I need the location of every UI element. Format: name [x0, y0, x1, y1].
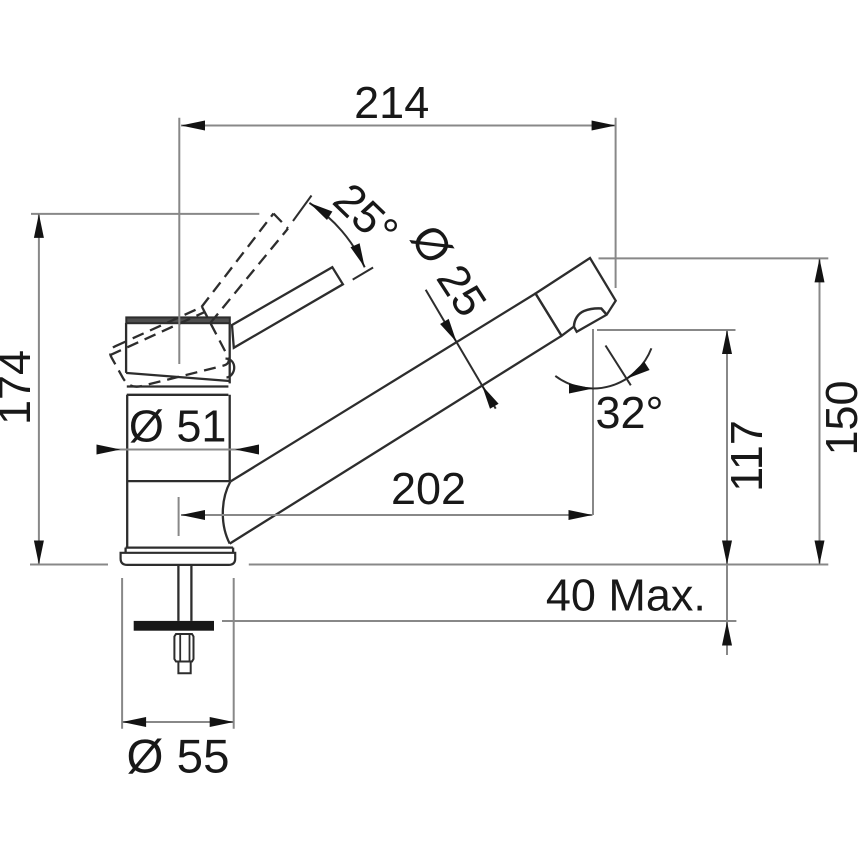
dashed handle lever edge 2 — [210, 229, 288, 323]
extension line flange right — [233, 578, 235, 729]
faucet collar upper line — [127, 385, 229, 387]
mounting nut — [174, 634, 193, 662]
dimension 202 right arrow — [569, 510, 593, 520]
spout head outline — [536, 258, 616, 336]
dimension 117 bottom arrow — [722, 541, 732, 565]
dimension 32 degree arc — [555, 348, 651, 388]
dimension 32 degree arrow right — [627, 362, 650, 379]
svg-text:150: 150 — [816, 380, 860, 455]
outlet axis line — [606, 346, 631, 386]
dimension diameter 51 line — [103, 449, 257, 451]
extension line spout tip (right of 214) — [615, 118, 617, 288]
dimension 214 right arrow — [592, 121, 616, 131]
extension line head top — [599, 257, 829, 259]
extension line centerline lower — [178, 497, 180, 536]
svg-text:202: 202 — [391, 463, 466, 514]
counter bottom line (40 max) — [222, 620, 736, 622]
extension line centerline (left of 214) — [178, 118, 180, 364]
faucet body bottom edge — [126, 373, 230, 381]
dashed handle lever tip — [274, 214, 289, 229]
dimension 174 top arrow — [34, 214, 44, 238]
dimension diameter 55 line — [122, 721, 234, 723]
svg-text:214: 214 — [354, 77, 429, 128]
dimension 117 line — [726, 330, 728, 565]
counter top line left segment — [30, 564, 108, 566]
extension line flange left — [121, 578, 123, 729]
faucet body spout socket curve — [226, 359, 235, 378]
dimension 40 tail line — [726, 621, 728, 655]
dimension 40 up arrow — [722, 622, 732, 646]
dimension 32 degree arrow left — [569, 384, 593, 394]
dimension 25 degree arc — [309, 203, 364, 267]
dimension 214 line — [181, 125, 616, 127]
dimension 25 degree arrow upper — [309, 203, 332, 220]
faucet body top rim — [126, 317, 230, 323]
spout neck curve — [223, 482, 231, 544]
dimension 150 top arrow — [815, 258, 825, 282]
svg-text:40 Max.: 40 Max. — [546, 570, 706, 621]
dimension 202 line — [181, 514, 593, 516]
threaded shank left line — [177, 565, 179, 621]
svg-text:117: 117 — [721, 420, 772, 492]
faucet base flange — [121, 553, 236, 565]
spout tube bottom edge — [230, 336, 562, 544]
dimension 202 left arrow — [181, 510, 205, 520]
extension line dashed lever — [293, 196, 312, 222]
dimension diameter 51 right arrow — [235, 445, 259, 455]
shank tip — [178, 662, 190, 674]
dimension 214 left arrow — [181, 121, 205, 131]
faucet body right edge — [229, 323, 231, 384]
dimension 150 bottom arrow — [815, 541, 825, 565]
dimension diameter 25 leader line — [426, 290, 496, 409]
svg-text:174: 174 — [0, 350, 40, 425]
spout tube top edge — [230, 294, 535, 482]
spout head joint line — [536, 294, 562, 336]
dimension diameter 25 upper arrow — [440, 319, 457, 342]
aerator outlet curve — [574, 308, 607, 326]
dimension diameter 55 left arrow — [122, 717, 146, 727]
svg-text:Ø 51: Ø 51 — [129, 400, 227, 451]
svg-text:Ø 55: Ø 55 — [127, 731, 230, 784]
svg-text:32°: 32° — [595, 387, 663, 438]
dimension 174 line — [38, 214, 40, 565]
faucet column joint line — [127, 480, 230, 482]
dimension 40 connector line — [726, 565, 728, 622]
faucet column right edge — [229, 395, 231, 481]
mounting washer (filled) — [134, 621, 214, 631]
dimension 150 line — [819, 258, 821, 564]
dimension 174 bottom arrow — [34, 541, 44, 565]
dimension 25 degree arrow lower — [351, 243, 365, 267]
threaded shank right line — [190, 565, 192, 621]
extension line solid lever — [353, 268, 373, 280]
faucet column bottom step — [126, 548, 234, 553]
faucet collar lower line — [127, 394, 229, 396]
handle lever (solid position) — [232, 267, 343, 348]
dashed handle lever edge 1 — [202, 214, 274, 308]
dimension diameter 25 lower arrow — [482, 386, 499, 409]
dimension diameter 55 right arrow — [210, 717, 234, 727]
counter top line right segment — [249, 564, 829, 566]
dashed body rim line — [110, 312, 204, 355]
extension line outlet vertical — [592, 329, 594, 515]
dimension 117 top arrow — [722, 330, 732, 354]
faucet column left edge — [126, 395, 128, 548]
extension line handle top — [31, 213, 259, 215]
dashed body outline (rotated position) — [110, 307, 229, 387]
faucet body left edge — [125, 323, 127, 373]
dimension diameter 51 left arrow — [97, 445, 121, 455]
extension line outlet level — [597, 329, 736, 331]
